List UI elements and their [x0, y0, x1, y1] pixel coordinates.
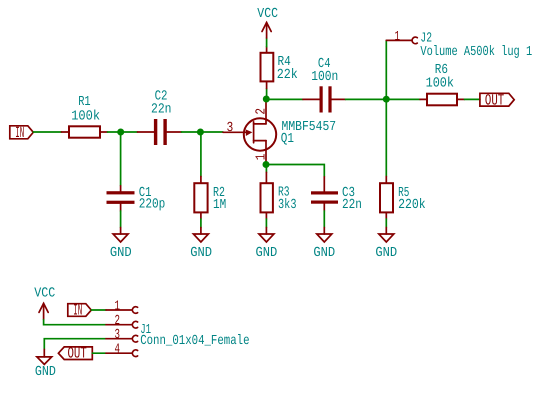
label C2 [155, 90, 168, 105]
wire junction A down to C1 [120, 132, 122, 186]
connector J1 pin 2 [106, 321, 138, 328]
label R3 [278, 186, 290, 201]
wire R6 to OUT [465, 98, 480, 100]
ground (J1 area) [37, 349, 52, 364]
svg-text:3: 3 [227, 121, 234, 136]
svg-text:4: 4 [115, 343, 121, 358]
wire C1 to GND [120, 211, 122, 228]
wire source node down to R3 [265, 165, 267, 173]
svg-text:1M: 1M [213, 198, 226, 213]
label J1 [140, 323, 151, 338]
svg-text:VCC: VCC [34, 287, 55, 302]
power VCC (J1 area) [39, 303, 48, 319]
wire J1 pin 3 to GND [44, 339, 106, 350]
svg-text:2: 2 [115, 314, 121, 329]
svg-text:100n: 100n [311, 70, 338, 85]
wire source node to C3 [266, 165, 324, 177]
wire C4 to junction D [346, 98, 387, 100]
resistor R6 [420, 94, 465, 106]
wire VCC to J1 pin 2 [44, 320, 106, 325]
label J2 [420, 31, 432, 46]
ground under R2 [193, 228, 208, 243]
svg-text:OUT: OUT [485, 91, 504, 109]
label C3 [342, 186, 355, 201]
label Conn_01x04_Female [140, 334, 249, 349]
label R1 [78, 95, 91, 110]
svg-text:GND: GND [35, 365, 56, 380]
capacitor C2 [138, 119, 182, 145]
svg-text:Q1: Q1 [281, 132, 295, 147]
wire junction D up to J2 [385, 40, 387, 99]
port IN (J1 area) [68, 302, 92, 320]
resistor R4 [261, 47, 274, 89]
svg-text:1: 1 [395, 30, 401, 45]
resistor R1 [62, 126, 108, 137]
label 100k (R6) [426, 76, 455, 91]
node junction A [117, 129, 124, 136]
capacitor C1 [107, 186, 135, 211]
pin number 2 (Q1 drain) [254, 108, 269, 115]
svg-text:22k: 22k [277, 68, 299, 83]
svg-text:2: 2 [254, 108, 269, 115]
svg-text:220k: 220k [398, 198, 426, 213]
label 3k3 [278, 198, 297, 213]
label R6 [435, 63, 448, 78]
svg-text:IN: IN [15, 124, 24, 142]
svg-text:GND: GND [190, 246, 212, 261]
label 220p [139, 197, 166, 212]
svg-text:Volume A500k lug 1: Volume A500k lug 1 [420, 45, 532, 60]
label R2 [213, 186, 225, 201]
label 22n [151, 103, 172, 118]
label GND under C1 [110, 246, 132, 261]
capacitor C3 [311, 177, 338, 211]
wire R3 to GND [265, 219, 267, 228]
node junction E (source node) [263, 161, 270, 168]
pin number 4 (J1) [115, 343, 121, 358]
svg-text:22n: 22n [151, 103, 172, 118]
svg-text:OUT: OUT [68, 345, 87, 363]
wire IN to R1 [33, 131, 61, 133]
transistor Q1 [223, 99, 276, 165]
svg-text:IN: IN [73, 302, 82, 320]
pin number 2 (J1) [115, 314, 121, 329]
node junction C (drain node) [263, 96, 270, 103]
label 22n (C3) [342, 198, 362, 213]
label C4 [318, 57, 331, 72]
svg-text:3k3: 3k3 [278, 198, 297, 213]
resistor R2 [194, 177, 207, 220]
wire C3 to GND [323, 211, 325, 228]
label VCC (top) [257, 7, 278, 22]
wire junction D to R6 [386, 98, 420, 100]
connector J1 pin 3 [106, 335, 138, 342]
connector J2 pin 1 [386, 37, 417, 44]
ground under C1 [113, 228, 128, 243]
resistor R3 [261, 172, 273, 219]
label GND under C3 [313, 246, 335, 261]
wire R1 to C2 [108, 131, 138, 133]
svg-text:VCC: VCC [257, 7, 278, 22]
label GND under R3 [256, 246, 278, 261]
label GND (J1 area) [35, 365, 56, 380]
connector J1 pin 4 [106, 350, 138, 357]
label 22k [277, 68, 299, 83]
label MMBF5457 [282, 120, 337, 135]
node junction D (output node) [383, 96, 390, 103]
svg-text:GND: GND [313, 246, 335, 261]
wire junction B down to R2 [200, 132, 202, 177]
port OUT [480, 91, 514, 109]
pin number 1 (J2) [395, 30, 401, 45]
node junction B [197, 129, 204, 136]
wire IN port to J1 pin 1 [91, 309, 106, 311]
wire R5 to GND [385, 219, 387, 228]
label Volume A500k lug 1 [420, 45, 532, 60]
pin number 1 (Q1 source) [254, 153, 269, 160]
label 100k [71, 109, 100, 124]
pin number 3 (J1) [115, 328, 121, 343]
svg-text:220p: 220p [139, 197, 166, 212]
wire drain node up to R4 [266, 89, 268, 100]
label VCC (J1 area) [34, 287, 55, 302]
label 220k [398, 198, 426, 213]
pin number 3 (Q1 gate) [227, 121, 234, 136]
wire C2 to Q1 gate [182, 131, 224, 133]
wire R2 to GND [200, 219, 202, 228]
power VCC (top) [262, 23, 271, 39]
svg-text:1: 1 [254, 153, 269, 160]
svg-text:22n: 22n [342, 198, 362, 213]
label R4 [278, 55, 292, 70]
svg-text:GND: GND [375, 246, 397, 261]
ground under R5 [379, 228, 394, 243]
svg-text:GND: GND [110, 246, 132, 261]
svg-text:1: 1 [115, 299, 121, 314]
capacitor C4 [303, 86, 346, 112]
label GND under R5 [375, 246, 397, 261]
label GND under R2 [190, 246, 212, 261]
port IN [10, 124, 34, 142]
label 100n [311, 70, 338, 85]
label R5 [398, 186, 409, 201]
connector J1 pin 1 [106, 307, 138, 314]
wire R4 to VCC [266, 38, 268, 47]
svg-text:100k: 100k [71, 109, 100, 124]
svg-text:3: 3 [115, 328, 121, 343]
label Q1 [281, 132, 295, 147]
wire OUT port to J1 pin 4 [92, 352, 106, 354]
wire drain node to C4 [266, 98, 303, 100]
svg-text:R1: R1 [78, 95, 91, 110]
svg-text:100k: 100k [426, 76, 455, 91]
wire junction D down to R5 [385, 99, 387, 176]
svg-text:Conn_01x04_Female: Conn_01x04_Female [140, 334, 249, 349]
pin number 1 (J1) [115, 299, 121, 314]
svg-text:GND: GND [256, 246, 278, 261]
ground under C3 [317, 228, 332, 243]
port OUT (J1 area) [58, 345, 92, 363]
label C1 [139, 186, 152, 201]
ground under R3 [259, 228, 274, 243]
resistor R5 [380, 177, 393, 220]
label 1M [213, 198, 226, 213]
